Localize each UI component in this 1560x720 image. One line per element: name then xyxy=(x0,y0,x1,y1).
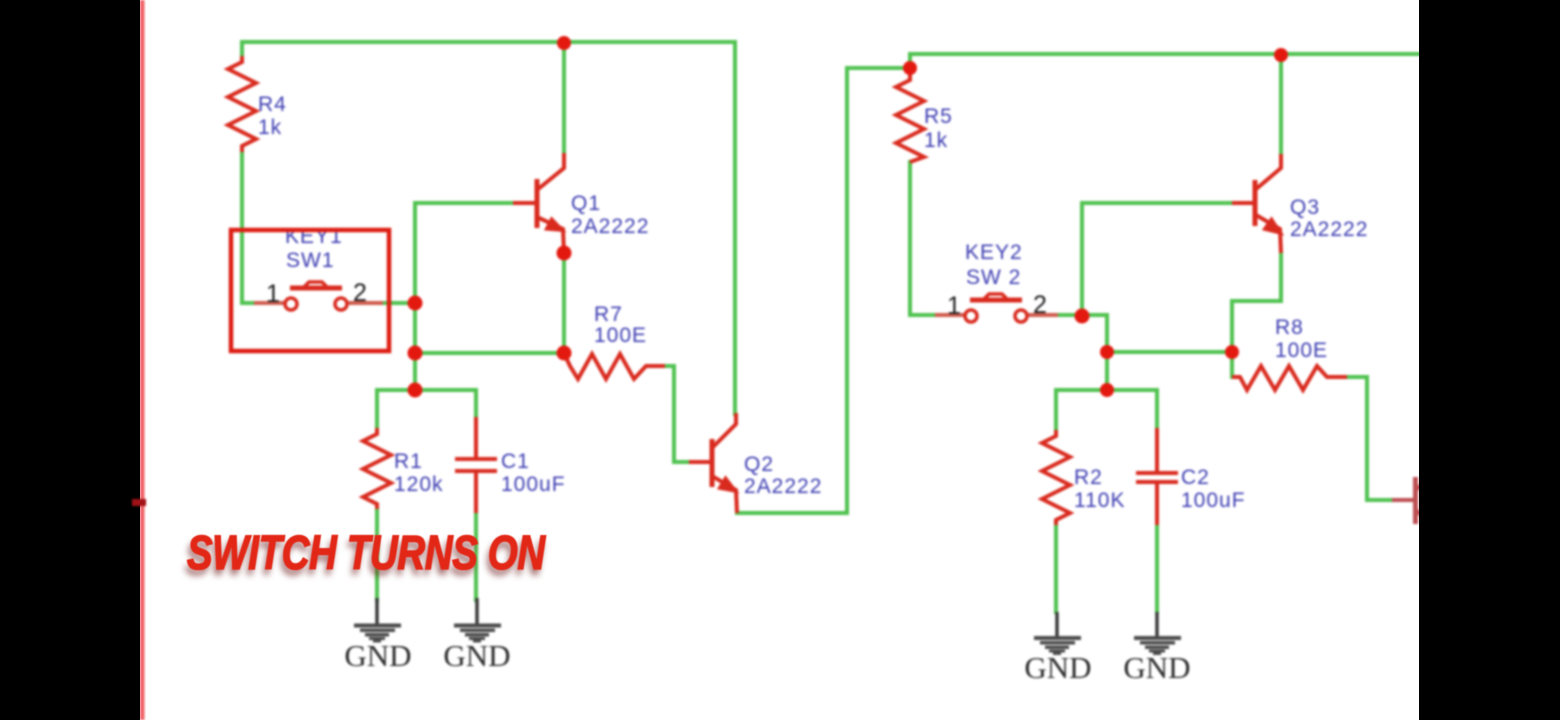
wire SW1 pin2 to node A xyxy=(383,301,415,305)
svg-text:GND: GND xyxy=(344,638,411,673)
svg-text:2A2222: 2A2222 xyxy=(744,475,822,498)
svg-text:R5: R5 xyxy=(924,105,953,128)
pin numbers xyxy=(266,279,1047,320)
svg-text:110K: 110K xyxy=(1074,489,1126,512)
node dot R1C1 xyxy=(408,383,423,398)
node dot R2C2 xyxy=(1100,383,1114,397)
red tick on cursor line xyxy=(132,499,146,506)
svg-text:SW1: SW1 xyxy=(286,249,335,272)
black pillarbox right xyxy=(1419,0,1560,720)
wire top rail left xyxy=(242,40,735,44)
node dot R7 left xyxy=(557,346,572,361)
svg-text:2: 2 xyxy=(1033,291,1047,319)
svg-text:1k: 1k xyxy=(258,116,282,139)
resistor R1 xyxy=(363,428,391,509)
node dot R7 node xyxy=(408,346,423,361)
wire R7 right to Q2 base xyxy=(665,366,689,462)
wire R2 C2 node xyxy=(1056,388,1157,392)
wire R8 right to diode xyxy=(1347,377,1392,500)
wire R1 C1 node xyxy=(377,388,476,392)
svg-text:GND: GND xyxy=(1024,650,1091,685)
svg-text:C1: C1 xyxy=(501,450,530,473)
red cursor line at left xyxy=(140,0,145,720)
svg-text:Q3: Q3 xyxy=(1290,196,1320,219)
transistor Q4 partial at right edge xyxy=(1392,477,1424,524)
capacitor C1 xyxy=(455,417,497,513)
svg-text:KEY2: KEY2 xyxy=(965,241,1023,264)
node dot SW1 right xyxy=(408,296,423,311)
resistor R8 xyxy=(1232,366,1347,390)
svg-text:2: 2 xyxy=(353,279,367,307)
wire R2 bottom lead xyxy=(1054,525,1058,612)
wire SW2 pin2 to node B xyxy=(1058,313,1082,317)
wire C2 top lead xyxy=(1155,390,1159,428)
svg-text:R4: R4 xyxy=(258,93,287,116)
svg-text:2A2222: 2A2222 xyxy=(1290,218,1368,241)
transistor Q1 xyxy=(513,153,564,253)
wire R5 bottom to SW2 xyxy=(910,162,935,315)
resistor R4 xyxy=(228,56,256,152)
wire top rail right xyxy=(910,52,1419,56)
svg-text:100E: 100E xyxy=(1275,339,1328,362)
svg-text:1: 1 xyxy=(266,280,280,308)
svg-text:R1: R1 xyxy=(394,450,423,473)
node dot Q3 rail xyxy=(1274,48,1288,62)
svg-text:100E: 100E xyxy=(594,324,647,347)
wire R2 top lead xyxy=(1054,390,1058,430)
svg-text:100uF: 100uF xyxy=(501,473,566,496)
caption SWITCH TURNS ON xyxy=(187,526,545,581)
wire R1 bottom lead xyxy=(375,509,379,600)
wire R4 bottom to SW1 xyxy=(242,152,254,303)
svg-text:1: 1 xyxy=(947,292,961,320)
wire node A vertical xyxy=(415,203,513,390)
wire node B to Q3 base xyxy=(1082,203,1232,315)
wire node to R8 xyxy=(1107,350,1232,354)
wire Q1 emitter down xyxy=(562,253,566,353)
capacitor C2 xyxy=(1136,428,1178,525)
svg-text:120k: 120k xyxy=(394,473,444,496)
ground GND2 xyxy=(454,598,501,643)
svg-text:2A2222: 2A2222 xyxy=(571,215,649,238)
svg-text:GND: GND xyxy=(443,638,510,673)
svg-text:C2: C2 xyxy=(1181,466,1210,489)
wire R4 top stub xyxy=(240,42,244,56)
wire R1 top lead xyxy=(375,390,379,428)
ground GND4 xyxy=(1134,612,1181,655)
black pillarbox left xyxy=(0,0,140,720)
resistor R2 xyxy=(1042,430,1070,525)
switch SW1 xyxy=(254,301,383,305)
wire C1 top lead xyxy=(474,390,478,417)
svg-text:R2: R2 xyxy=(1074,466,1103,489)
wire Q1 collector up xyxy=(562,48,566,153)
ground GND3 xyxy=(1034,612,1081,655)
svg-text:GND: GND xyxy=(1123,650,1190,685)
node dot Q1 collector rail xyxy=(557,36,571,50)
wire C1 bottom lead xyxy=(474,513,478,600)
svg-text:Q2: Q2 xyxy=(744,453,774,476)
svg-text:R8: R8 xyxy=(1275,316,1304,339)
svg-text:SW 2: SW 2 xyxy=(966,266,1021,289)
node dot SW2 right xyxy=(1075,309,1090,324)
svg-text:R7: R7 xyxy=(594,303,623,326)
svg-text:Q1: Q1 xyxy=(571,192,601,215)
wire R8 left stub xyxy=(1230,352,1234,377)
svg-text:1k: 1k xyxy=(924,129,948,152)
wire Q3 emitter to R8 xyxy=(1232,253,1281,352)
resistor R7 xyxy=(564,353,665,379)
node dot Q1 emitter xyxy=(557,246,572,261)
resistor R5 xyxy=(896,74,924,162)
wire R5 top stub xyxy=(908,54,912,74)
wire Q3 collector up xyxy=(1279,55,1283,154)
wire Q2 emitter loop xyxy=(737,68,910,513)
transistor Q2 xyxy=(689,413,737,513)
node dot R8 left xyxy=(1225,345,1239,359)
node dot R5 top xyxy=(903,61,917,75)
switch SW2 xyxy=(935,313,1058,317)
transistor Q3 xyxy=(1232,154,1281,253)
wire node A to R7 xyxy=(415,351,564,355)
wire Q2 collector drop xyxy=(733,42,737,414)
selection box around SW1 xyxy=(231,230,389,351)
ground GND1 xyxy=(354,598,401,643)
labels blue xyxy=(258,93,1368,512)
svg-text:100uF: 100uF xyxy=(1181,489,1246,512)
GND labels xyxy=(344,638,1190,685)
wire C2 bottom lead xyxy=(1155,525,1159,612)
node dot R8 row xyxy=(1100,345,1114,359)
wire node B step down xyxy=(1082,315,1107,390)
